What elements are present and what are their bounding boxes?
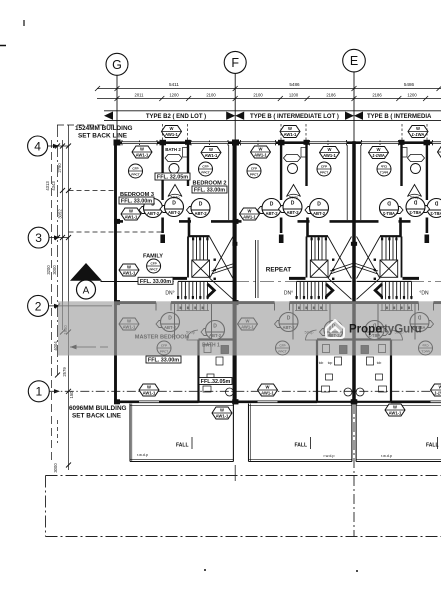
svg-text:FFL. 33.00m: FFL. 33.00m <box>140 279 171 285</box>
svg-text:TYPE B ( INTERMEDIATE LOT ): TYPE B ( INTERMEDIATE LOT ) <box>250 114 339 120</box>
svg-text:SET BACK LINE: SET BACK LINE <box>72 413 122 420</box>
svg-text:FFL. 33.00m: FFL. 33.00m <box>148 358 179 364</box>
svg-text:4343: 4343 <box>51 181 56 191</box>
svg-text:A: A <box>83 286 90 297</box>
svg-text:Prope: Prope <box>349 324 382 336</box>
bottom boundary dash dot lines <box>46 404 441 537</box>
bottom dots <box>204 569 206 571</box>
type band lines <box>104 111 441 121</box>
svg-text:FFL. 33.00m: FFL. 33.00m <box>194 188 225 194</box>
svg-text:tob: tob <box>319 361 324 365</box>
grid circle E <box>343 49 366 141</box>
grid circle 3 <box>28 227 68 248</box>
svg-text:50dp: 50dp <box>410 195 420 200</box>
svg-text:r.w.d.p: r.w.d.p <box>137 453 148 457</box>
overall dimension line <box>95 86 441 91</box>
svg-text:5411: 5411 <box>169 82 179 87</box>
left dimension verticals <box>52 125 69 470</box>
svg-text:3000: 3000 <box>52 265 57 275</box>
dashed reference lines <box>70 346 112 348</box>
svg-text:2011: 2011 <box>134 93 144 98</box>
svg-text:6096MM BUILDING: 6096MM BUILDING <box>69 405 127 412</box>
svg-text:top: top <box>328 361 333 365</box>
section marker A <box>70 263 441 299</box>
svg-text:tob: tob <box>377 361 382 365</box>
svg-text:2: 2 <box>35 299 42 313</box>
svg-text:FFL.32.05m: FFL.32.05m <box>201 379 231 385</box>
svg-text:TYPE B ( INTERMEDIA: TYPE B ( INTERMEDIA <box>367 114 432 120</box>
svg-text:FALL: FALL <box>295 443 308 449</box>
svg-text:1: 1 <box>35 385 42 399</box>
unit 1 <box>114 124 239 462</box>
svg-text:F: F <box>231 56 239 70</box>
svg-text:3000: 3000 <box>53 463 58 473</box>
artifact dash top-left <box>0 45 6 47</box>
svg-text:2790: 2790 <box>57 163 62 173</box>
svg-text:BATH 2: BATH 2 <box>165 147 181 152</box>
svg-text:5486: 5486 <box>404 82 415 87</box>
sub dim labels <box>134 93 417 98</box>
row1 dash-dot line <box>49 390 441 392</box>
type band arrows <box>104 112 363 120</box>
svg-text:FAMILY: FAMILY <box>143 254 163 260</box>
grid circle 4 <box>28 136 68 156</box>
grid circle G <box>106 53 128 141</box>
svg-text:1200: 1200 <box>289 93 299 98</box>
svg-text:5486: 5486 <box>289 82 300 87</box>
svg-text:150: 150 <box>69 391 74 399</box>
svg-text:°DN: °DN <box>419 291 429 297</box>
svg-text:2579: 2579 <box>62 367 67 377</box>
terrace window symbols <box>212 407 232 419</box>
svg-text:1524MM BUILDING: 1524MM BUILDING <box>75 125 133 132</box>
grid circle 1 <box>28 381 60 402</box>
grid circle F <box>224 51 246 141</box>
svg-text:2100: 2100 <box>253 93 263 98</box>
svg-text:SET BACK LINE: SET BACK LINE <box>78 133 128 140</box>
svg-text:3200: 3200 <box>46 265 51 275</box>
svg-text:rtyGuru: rtyGuru <box>380 324 422 336</box>
sub dimension line <box>97 96 441 101</box>
svg-text:3052: 3052 <box>58 209 63 219</box>
svg-text:1200: 1200 <box>407 93 417 98</box>
svg-text:TYPE B2 ( END LOT ): TYPE B2 ( END LOT ) <box>146 114 206 120</box>
fan family u1 <box>147 259 161 273</box>
svg-text:1200: 1200 <box>169 93 179 98</box>
svg-text:4313: 4313 <box>45 181 50 191</box>
grid circle 2 <box>28 295 112 316</box>
svg-text:FFL. 32.05m: FFL. 32.05m <box>157 175 188 181</box>
left dim ticks <box>55 144 71 468</box>
unit 2 duct line <box>255 240 257 298</box>
svg-text:DN°: DN° <box>284 291 293 297</box>
svg-text:REPEAT: REPEAT <box>266 267 292 274</box>
svg-text:FALL: FALL <box>176 443 189 449</box>
svg-text:50dp: 50dp <box>289 195 299 200</box>
type labels <box>140 112 212 120</box>
svg-text:G: G <box>112 58 122 72</box>
family window symbol u1 <box>119 264 139 276</box>
artifact tick top-left <box>23 20 25 26</box>
svg-text:FFL. 33.00m: FFL. 33.00m <box>121 199 152 205</box>
svg-text:4: 4 <box>34 139 41 153</box>
svg-text:3: 3 <box>35 231 42 245</box>
FFL boxes unit1 <box>119 173 232 385</box>
svg-text:E: E <box>350 54 358 68</box>
svg-text:4004: 4004 <box>53 341 58 351</box>
svg-text:r.w.d.p: r.w.d.p <box>381 454 392 458</box>
svg-text:DN°: DN° <box>165 291 174 297</box>
unit 3 mirrored <box>351 124 441 462</box>
svg-text:r.w.d.p: r.w.d.p <box>324 454 335 458</box>
svg-text:50dp: 50dp <box>171 195 181 200</box>
left dim rotated labels <box>45 163 74 473</box>
svg-text:2100: 2100 <box>206 93 216 98</box>
svg-text:FALL: FALL <box>426 443 439 449</box>
svg-text:2186: 2186 <box>326 93 336 98</box>
watermark logo <box>326 320 344 338</box>
svg-text:2186: 2186 <box>372 93 382 98</box>
unit 2 <box>232 124 357 462</box>
setback dashed line <box>57 124 116 126</box>
